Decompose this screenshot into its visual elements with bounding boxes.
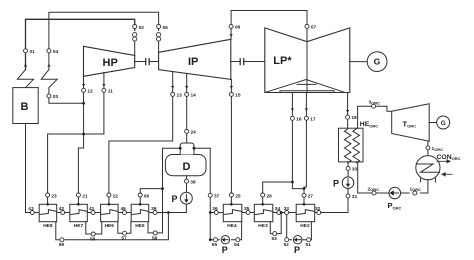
svg-text:13: 13 xyxy=(177,93,183,99)
svg-text:HE5: HE5 xyxy=(135,223,145,229)
wire T ORC outlet to condenser xyxy=(427,141,429,156)
svg-text:P: P xyxy=(333,178,339,188)
node 18 xyxy=(346,115,357,121)
cooling water out arrow xyxy=(437,160,450,163)
junction drain to riser xyxy=(209,238,212,241)
wire LP exhaust 18 to HE ORC xyxy=(347,93,349,129)
svg-text:LP*: LP* xyxy=(273,55,292,67)
node 04 xyxy=(47,49,59,55)
svg-text:12: 12 xyxy=(87,89,93,95)
node 27 xyxy=(302,193,313,199)
svg-text:01: 01 xyxy=(30,49,36,55)
flow arrow 12 xyxy=(82,84,85,87)
shaft T ORC to G xyxy=(429,122,436,124)
cooling water in arrow xyxy=(442,173,452,176)
turbine LP double flow xyxy=(265,28,350,93)
svg-text:1ORC: 1ORC xyxy=(432,146,444,152)
coupling IP-LP xyxy=(240,59,244,65)
svg-text:P: P xyxy=(294,245,300,255)
stop valve IP xyxy=(157,33,161,42)
node 21 xyxy=(76,193,87,199)
junction 16 branch xyxy=(291,181,294,184)
svg-text:02: 02 xyxy=(139,25,145,31)
svg-text:HE4: HE4 xyxy=(227,223,237,229)
node 38 xyxy=(185,179,196,185)
svg-text:2ORC: 2ORC xyxy=(368,186,380,192)
reheater zigzag right xyxy=(41,70,57,94)
node 06 xyxy=(229,24,241,30)
svg-text:23: 23 xyxy=(51,193,57,199)
heater HE7 xyxy=(70,203,88,229)
svg-text:21: 21 xyxy=(82,193,88,199)
junction drain riser feedline xyxy=(167,211,170,214)
node 36 xyxy=(212,206,218,215)
svg-text:55: 55 xyxy=(212,242,218,248)
node 16 xyxy=(290,116,301,122)
node 23 xyxy=(46,193,57,199)
node 1 ORC top xyxy=(426,146,443,152)
node 52 xyxy=(284,238,290,248)
svg-text:46: 46 xyxy=(121,206,127,212)
svg-text:33: 33 xyxy=(352,167,358,173)
turbine T ORC xyxy=(392,104,430,142)
node 57 xyxy=(121,231,127,241)
node 15 xyxy=(229,92,240,98)
heater HE8 xyxy=(39,203,57,229)
svg-text:IP: IP xyxy=(188,56,198,68)
wire extraction 14 from IP to deaerator xyxy=(186,74,188,144)
node 24 xyxy=(185,129,196,135)
node 46 xyxy=(121,206,127,215)
deaerator D tank xyxy=(165,143,206,176)
wire drain U HE7-HE6 xyxy=(86,222,102,234)
node 33 xyxy=(284,206,290,215)
svg-text:60: 60 xyxy=(144,193,150,199)
heater HE2 xyxy=(296,203,315,229)
svg-text:HE6: HE6 xyxy=(105,223,115,229)
feed pump P xyxy=(172,192,193,204)
flow arrow 11 xyxy=(102,84,105,87)
junction 16/17 lines xyxy=(303,187,306,190)
node 26 xyxy=(261,193,272,199)
HE ORC evaporator xyxy=(339,121,379,163)
superheater zigzag left xyxy=(17,70,33,88)
node 02 xyxy=(133,25,145,31)
svg-text:HE7: HE7 xyxy=(74,223,84,229)
wire cold reheat 03 to HP exhaust xyxy=(49,98,84,103)
node 13 xyxy=(171,92,182,98)
wire deaerator outlet to feed pump xyxy=(149,176,187,213)
stop valve HP xyxy=(133,33,137,42)
svg-text:52: 52 xyxy=(284,242,290,248)
wire extraction 12 from HP exhaust xyxy=(78,76,83,204)
svg-text:54: 54 xyxy=(234,242,240,248)
svg-text:G: G xyxy=(441,120,446,127)
node 39 xyxy=(151,206,157,215)
node 3 ORC xyxy=(369,100,381,109)
node 22 xyxy=(107,193,118,199)
wire HE4 drain pump line xyxy=(210,222,241,240)
heater HE6 xyxy=(101,203,119,229)
node 1 ORC bottom xyxy=(410,186,422,195)
wire HE ORC to T ORC xyxy=(358,106,392,128)
svg-text:HE2: HE2 xyxy=(300,223,310,229)
junction dome right xyxy=(193,147,196,150)
node 37 xyxy=(208,193,219,199)
node 34 xyxy=(275,206,281,215)
wire extraction 17 from LP to HE2 xyxy=(304,93,306,205)
heater HE5 xyxy=(131,203,149,229)
wire hot reheat line to IP xyxy=(49,12,159,69)
svg-text:56: 56 xyxy=(152,235,158,241)
node 01 xyxy=(24,49,36,55)
flow arrow 17 xyxy=(305,109,308,112)
flow arrow 14 xyxy=(185,86,188,89)
wire extraction 11 from HP xyxy=(48,73,104,205)
node 2 ORC xyxy=(368,186,380,195)
svg-text:18: 18 xyxy=(351,115,357,121)
svg-text:1ORC: 1ORC xyxy=(410,186,422,192)
wire HE2 drain pump line xyxy=(287,215,312,240)
feedwater line left group xyxy=(26,124,132,213)
node 05 xyxy=(157,25,169,31)
wire IP exhaust crossover to LP xyxy=(231,11,307,42)
junction 11/12 lines xyxy=(82,133,85,136)
wire valve to IP inlet xyxy=(158,41,160,52)
flow arrow on crossover xyxy=(230,34,233,37)
pump P ORC xyxy=(388,187,402,210)
node 56 xyxy=(152,231,158,241)
svg-text:59: 59 xyxy=(59,242,65,248)
svg-text:07: 07 xyxy=(311,25,317,31)
junction cold reheat xyxy=(82,102,85,105)
svg-text:HE3: HE3 xyxy=(258,223,268,229)
shaft LP-G xyxy=(350,61,368,63)
flow arrow 18 xyxy=(346,110,349,113)
turbine IP xyxy=(159,39,231,79)
node 33 ORC side xyxy=(346,166,357,172)
svg-text:05: 05 xyxy=(163,25,169,31)
shaft IP-LP xyxy=(231,61,265,63)
svg-text:HP: HP xyxy=(103,57,118,69)
generator G ORC xyxy=(437,116,450,129)
condensate line right group xyxy=(210,212,348,214)
node 51 xyxy=(306,238,312,248)
svg-text:34: 34 xyxy=(275,206,281,212)
flow arrow 15 xyxy=(230,86,233,89)
svg-text:P: P xyxy=(172,194,178,204)
node 60 xyxy=(138,193,149,199)
node 11 xyxy=(102,88,113,94)
heater HE4 xyxy=(223,203,242,229)
svg-text:53: 53 xyxy=(272,236,278,242)
wire valve to HP inlet xyxy=(134,41,136,55)
svg-text:17: 17 xyxy=(310,117,316,123)
svg-text:25: 25 xyxy=(235,193,241,199)
wire branch to node 60 xyxy=(140,189,162,205)
svg-text:37: 37 xyxy=(214,194,220,200)
node 14 xyxy=(185,92,196,98)
svg-text:35: 35 xyxy=(244,206,250,212)
flow arrow 13 xyxy=(171,86,174,89)
junction dome left xyxy=(179,147,182,150)
generator G xyxy=(367,52,387,72)
node 25 xyxy=(229,193,240,199)
wire condenser to P ORC to HE ORC xyxy=(358,162,428,193)
svg-text:04: 04 xyxy=(53,49,59,55)
wire HE3 drain to condensate xyxy=(270,213,281,234)
wire drain U HE6-HE5 xyxy=(118,222,131,234)
svg-text:58: 58 xyxy=(90,236,96,242)
wire extraction 13 from IP xyxy=(109,72,173,205)
node 54 xyxy=(234,238,240,248)
node 12 xyxy=(82,88,93,94)
wire extraction 15 from IP to HE4 xyxy=(230,79,233,204)
svg-text:06: 06 xyxy=(235,25,241,31)
svg-text:42: 42 xyxy=(59,206,65,212)
condenser CON ORC xyxy=(416,154,461,182)
svg-text:PORC: PORC xyxy=(388,201,402,210)
drain pump HE2 xyxy=(294,236,302,255)
node 07 xyxy=(305,24,317,30)
svg-text:31: 31 xyxy=(352,194,358,200)
wire HE ORC condensate to main line xyxy=(321,162,348,213)
svg-text:3ORC: 3ORC xyxy=(369,100,381,106)
svg-text:HE8: HE8 xyxy=(43,223,53,229)
flow arrow on reheat riser xyxy=(47,64,50,67)
svg-text:51: 51 xyxy=(306,242,312,248)
wire extraction 16 from LP to HE3 xyxy=(263,93,304,205)
turbine HP xyxy=(84,46,135,76)
node 41 xyxy=(89,206,95,215)
junction condensate to riser xyxy=(209,211,212,214)
svg-text:33: 33 xyxy=(284,206,290,212)
svg-text:G: G xyxy=(374,57,381,67)
svg-text:38: 38 xyxy=(190,180,196,186)
svg-text:14: 14 xyxy=(191,93,197,99)
svg-text:11: 11 xyxy=(108,89,113,95)
boiler B xyxy=(13,88,38,124)
svg-text:HEORC: HEORC xyxy=(360,121,378,128)
pump P ORC loop xyxy=(333,177,354,189)
node 58 xyxy=(90,232,96,242)
svg-text:24: 24 xyxy=(191,130,197,136)
wire HE8 drain bus xyxy=(56,213,169,240)
junction riser 60 xyxy=(161,187,164,190)
drain pump HE4 xyxy=(221,236,229,255)
node 43 xyxy=(28,206,34,215)
svg-text:27: 27 xyxy=(308,194,314,200)
shaft HP-IP xyxy=(135,61,159,63)
svg-text:16: 16 xyxy=(296,117,302,123)
node 59 xyxy=(59,238,65,248)
node 17 xyxy=(304,116,315,122)
wire main steam line B to HP xyxy=(26,19,135,69)
node 53 xyxy=(272,232,278,242)
svg-text:43: 43 xyxy=(28,206,34,212)
node 31 xyxy=(346,194,357,200)
svg-text:22: 22 xyxy=(113,193,119,199)
svg-text:B: B xyxy=(21,101,29,113)
svg-text:36: 36 xyxy=(212,206,218,212)
node 03 xyxy=(47,94,58,100)
svg-text:P: P xyxy=(222,245,228,255)
svg-text:41: 41 xyxy=(89,206,95,212)
svg-text:15: 15 xyxy=(235,93,241,99)
flow arrow on main steam riser xyxy=(24,64,27,67)
wire drain U HE5 to riser xyxy=(148,222,163,233)
svg-text:39: 39 xyxy=(151,206,157,212)
svg-text:26: 26 xyxy=(267,193,273,199)
svg-text:D: D xyxy=(183,161,191,173)
heater HE3 xyxy=(254,203,272,229)
wire deaerator drain loop xyxy=(163,148,211,240)
node 32 xyxy=(315,206,321,215)
node 55 xyxy=(212,238,218,248)
junction 53 riser xyxy=(280,211,283,214)
node 42 xyxy=(59,206,65,215)
svg-text:57: 57 xyxy=(121,236,127,242)
svg-text:03: 03 xyxy=(53,94,59,100)
svg-text:32: 32 xyxy=(315,206,321,212)
node 35 xyxy=(244,206,250,215)
coupling HP-IP xyxy=(146,59,150,65)
flow arrow 16 xyxy=(291,109,294,112)
